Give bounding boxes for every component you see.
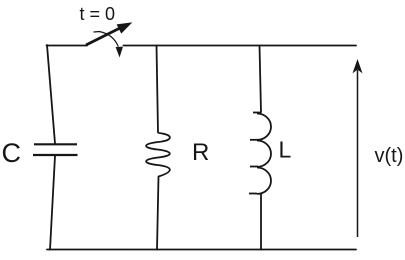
switch swing arc with arrowhead [94, 32, 123, 57]
wire resistor branch lower [157, 177, 159, 250]
wire left vertical upper [47, 45, 55, 144]
wire inductor branch lower [260, 194, 262, 250]
svg-text:v(t): v(t) [375, 145, 404, 167]
wire left vertical lower [50, 156, 55, 250]
inductor L coils [249, 113, 271, 194]
resistor R squiggle [146, 133, 170, 177]
capacitor C plates [33, 144, 78, 155]
svg-text:C: C [2, 138, 22, 168]
wire bottom horizontal [47, 249, 356, 251]
switch SW blade [86, 23, 131, 45]
wire inductor branch upper [260, 46, 262, 113]
svg-text:R: R [192, 139, 209, 166]
wire resistor branch upper [157, 46, 159, 133]
v(t) arrow [354, 61, 362, 238]
svg-text:L: L [279, 137, 292, 163]
wire top horizontal [124, 45, 357, 47]
svg-text:t = 0: t = 0 [80, 4, 116, 24]
wire top-left horizontal [47, 45, 88, 47]
